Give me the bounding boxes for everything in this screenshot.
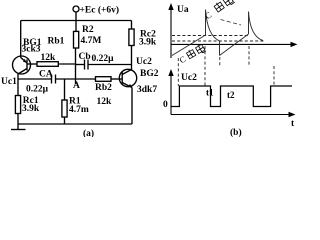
svg-text:Cb: Cb [79,52,91,62]
svg-text:0.22μ: 0.22μ [26,85,49,95]
svg-text:12k: 12k [97,97,113,107]
svg-text:C: C [178,54,188,66]
svg-text:0: 0 [163,100,168,110]
svg-text:(b): (b) [230,127,242,137]
svg-text:t2: t2 [227,90,235,100]
svg-text:12k: 12k [41,53,57,63]
svg-text:Uc1: Uc1 [1,77,17,87]
svg-text:3.9k: 3.9k [22,104,40,114]
svg-text:3dk7: 3dk7 [137,85,157,95]
svg-text:4.7m: 4.7m [69,105,89,115]
svg-text:R2: R2 [82,25,94,35]
svg-text:+Ec (+6v): +Ec (+6v) [80,5,120,16]
svg-text:Ua: Ua [177,5,189,15]
svg-text:(a): (a) [83,128,94,137]
svg-text:Uc2: Uc2 [136,57,152,67]
svg-text:4.7M: 4.7M [81,36,102,46]
svg-text:3.9k: 3.9k [139,38,157,48]
svg-text:Rb2: Rb2 [95,83,112,93]
svg-text:BG2: BG2 [140,69,159,79]
svg-text:A: A [73,81,80,91]
svg-text:C: C [203,10,214,22]
svg-text:t: t [291,119,295,129]
svg-text:CA: CA [39,70,53,80]
svg-text:t1: t1 [206,88,214,98]
svg-text:0.22μ: 0.22μ [92,54,115,64]
svg-text:Uc2: Uc2 [181,73,197,83]
svg-text:3ck3: 3ck3 [22,45,41,55]
svg-text:Rb1: Rb1 [48,37,65,47]
